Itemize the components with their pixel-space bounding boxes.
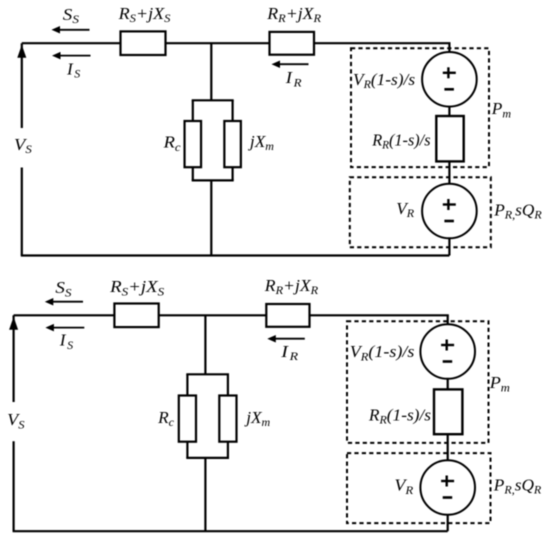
svg-text:RR(1-s)/s: RR(1-s)/s <box>368 405 431 426</box>
svg-text:VR(1-s)/s: VR(1-s)/s <box>350 342 415 364</box>
svg-text:RS+jXS: RS+jXS <box>109 277 165 298</box>
svg-text:RR+jXR: RR+jXR <box>264 275 319 297</box>
svg-text:RS+jXS: RS+jXS <box>118 3 171 25</box>
svg-text:RR(1-s)/s: RR(1-s)/s <box>371 130 431 152</box>
svg-text:VR(1-s)/s: VR(1-s)/s <box>353 70 415 91</box>
svg-text:RR+jXR: RR+jXR <box>266 3 321 25</box>
